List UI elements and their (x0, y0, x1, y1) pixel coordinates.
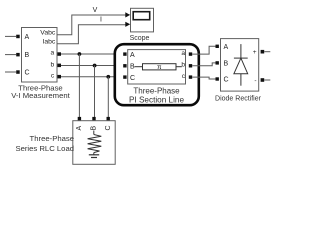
PI port b square (189, 64, 192, 67)
PI port C square (123, 75, 126, 78)
wire PI b to rectifier B (192, 63, 215, 66)
scope input arrow 2 (125, 22, 130, 27)
svg-text:b: b (51, 61, 55, 68)
svg-text:π: π (157, 64, 162, 71)
RLC icon cap plate 2 (91, 157, 97, 159)
port B input square (16, 53, 20, 57)
rectifier port B square (216, 61, 219, 64)
port c output square (58, 75, 62, 79)
svg-text:C: C (105, 125, 112, 130)
wire PI a to rectifier A (192, 46, 215, 54)
PI port c square (189, 75, 192, 78)
port b output square (58, 64, 62, 68)
wire input B (5, 54, 16, 56)
port C input square (16, 70, 20, 74)
svg-text:B: B (224, 61, 229, 68)
diode D1 triangle (234, 58, 248, 74)
wire drop C to RLC (107, 77, 109, 117)
rectifier port A square (216, 45, 219, 48)
RLC icon lead to cap (93, 153, 95, 155)
diode D1 anode lead (240, 74, 242, 86)
RLC port A square (78, 117, 81, 120)
wire b (61, 65, 123, 67)
PI port a square (189, 52, 192, 55)
svg-text:Three-Phase: Three-Phase (133, 87, 180, 96)
svg-text:Iabc: Iabc (42, 39, 55, 46)
wire input C (5, 71, 16, 73)
svg-text:B: B (91, 126, 98, 131)
svg-text:Series RLC Load: Series RLC Load (15, 144, 74, 153)
RLC port B square (92, 117, 95, 120)
wire Vabc to Scope (57, 15, 128, 35)
pi element lead right (176, 66, 182, 68)
PI inner rect (128, 50, 186, 84)
block Scope (131, 8, 154, 32)
wire PI c to rectifier C (192, 77, 215, 79)
port + square (261, 50, 265, 54)
scope input arrow 1 (125, 12, 130, 17)
svg-text:-: - (254, 77, 256, 84)
diode D1 cathode lead (240, 44, 242, 58)
rectifier port C square (216, 77, 219, 80)
wire Iabc to Scope (57, 25, 128, 44)
wire input A (5, 35, 16, 37)
block U1 Three-Phase V-I Measurement (22, 28, 58, 83)
svg-text:C: C (25, 70, 30, 77)
RLC port C square (107, 117, 110, 120)
RLC icon zigzag (88, 135, 102, 153)
svg-text:Scope: Scope (130, 35, 150, 42)
block U3 Diode Rectifier (221, 39, 259, 92)
svg-text:Diode Rectifier: Diode Rectifier (215, 96, 262, 103)
svg-text:V: V (93, 7, 98, 14)
block U2 Three-Phase PI Section Line outer (115, 44, 199, 105)
svg-text:A: A (130, 52, 135, 59)
svg-text:A: A (25, 34, 30, 41)
PI port B square (123, 64, 126, 67)
pi element box (143, 64, 177, 70)
block U4 Three-Phase Series RLC Load (73, 121, 115, 165)
svg-text:Three-Phase: Three-Phase (30, 134, 74, 143)
wire drop A to RLC (78, 54, 80, 117)
diode D1 cathode bar (234, 57, 248, 59)
junction a (78, 52, 82, 56)
svg-text:B: B (130, 64, 135, 71)
svg-text:C: C (130, 75, 135, 82)
svg-text:I: I (100, 17, 102, 24)
svg-text:PI Section Line: PI Section Line (129, 95, 185, 104)
wire a: V-I to PI with tap (61, 53, 123, 55)
svg-text:a: a (181, 50, 185, 57)
svg-text:V-I Measurement: V-I Measurement (11, 91, 70, 100)
RLC icon cap plate 1 (89, 154, 99, 156)
PI port A square (123, 52, 126, 55)
svg-text:C: C (224, 77, 229, 84)
svg-text:A: A (76, 126, 83, 131)
port - square (261, 78, 265, 82)
junction b (93, 64, 97, 68)
wire c (61, 76, 123, 78)
svg-text:Vabc: Vabc (40, 30, 56, 37)
svg-text:+: + (253, 49, 257, 56)
junction c (106, 75, 110, 79)
svg-text:B: B (25, 52, 30, 59)
pi element lead left (135, 66, 143, 68)
wire - stub (264, 79, 270, 81)
port a output square (58, 52, 62, 56)
svg-text:b: b (181, 62, 185, 69)
wire drop B to RLC (94, 66, 96, 118)
svg-text:A: A (224, 44, 229, 51)
port A input square (16, 35, 20, 39)
RLC icon top lead (93, 131, 95, 135)
wire + stub (264, 51, 270, 53)
scope screen (133, 12, 150, 20)
svg-text:a: a (51, 50, 55, 57)
